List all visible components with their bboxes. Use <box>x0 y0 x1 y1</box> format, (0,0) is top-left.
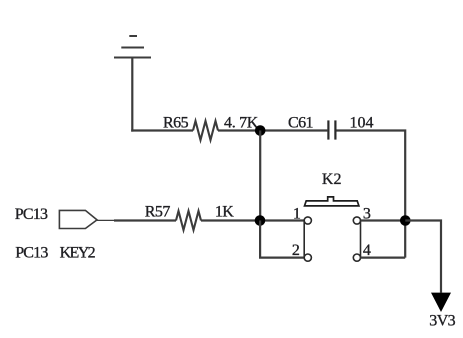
K2 pole right <box>360 221 362 258</box>
node junction C <box>400 215 411 226</box>
svg-text:R65: R65 <box>163 115 189 132</box>
wire junction B down and to pin2 <box>260 221 304 258</box>
wire ground stem <box>131 58 133 132</box>
svg-text:2: 2 <box>292 242 300 259</box>
resistor R57 <box>176 211 201 230</box>
wire pin3 to junction C <box>361 219 406 221</box>
wire pin4 to right vertical <box>361 257 406 259</box>
K2 pole left <box>303 221 305 258</box>
resistor R65 <box>193 121 218 140</box>
wire resistor to switch pin1 <box>201 219 304 221</box>
node junction B <box>255 215 266 226</box>
port PC13 <box>59 210 97 228</box>
ground <box>114 36 151 58</box>
capacitor C61 <box>327 120 329 139</box>
wire junction C to 3V3 arrow <box>405 221 441 293</box>
K2 pin3 <box>353 217 360 224</box>
svg-text:C61: C61 <box>288 115 313 132</box>
node junction A <box>255 125 266 136</box>
svg-text:KEY2: KEY2 <box>60 244 96 261</box>
svg-text:K2: K2 <box>322 171 342 188</box>
power arrow 3V3 <box>431 293 451 312</box>
svg-text:1K: 1K <box>215 204 234 221</box>
svg-text:PC13: PC13 <box>15 206 48 223</box>
K2 button cap <box>305 197 359 206</box>
wire top row left <box>131 129 193 131</box>
K2 pin1 <box>304 217 311 224</box>
svg-text:1: 1 <box>293 205 301 222</box>
svg-text:R57: R57 <box>145 204 171 221</box>
svg-text:104: 104 <box>350 115 374 132</box>
wire port pin <box>97 219 114 221</box>
K2 pin4 <box>353 254 360 261</box>
K2 pin2 <box>304 254 311 261</box>
svg-text:PC13: PC13 <box>15 244 48 261</box>
wire capacitor to right corner <box>336 131 405 258</box>
svg-text:4. 7K: 4. 7K <box>224 115 259 132</box>
wire resistor to capacitor <box>218 129 327 131</box>
wire port to resistor <box>114 219 176 221</box>
wire vertical between junctions <box>259 131 261 221</box>
svg-text:4: 4 <box>363 242 371 259</box>
svg-text:3V3: 3V3 <box>429 313 455 330</box>
